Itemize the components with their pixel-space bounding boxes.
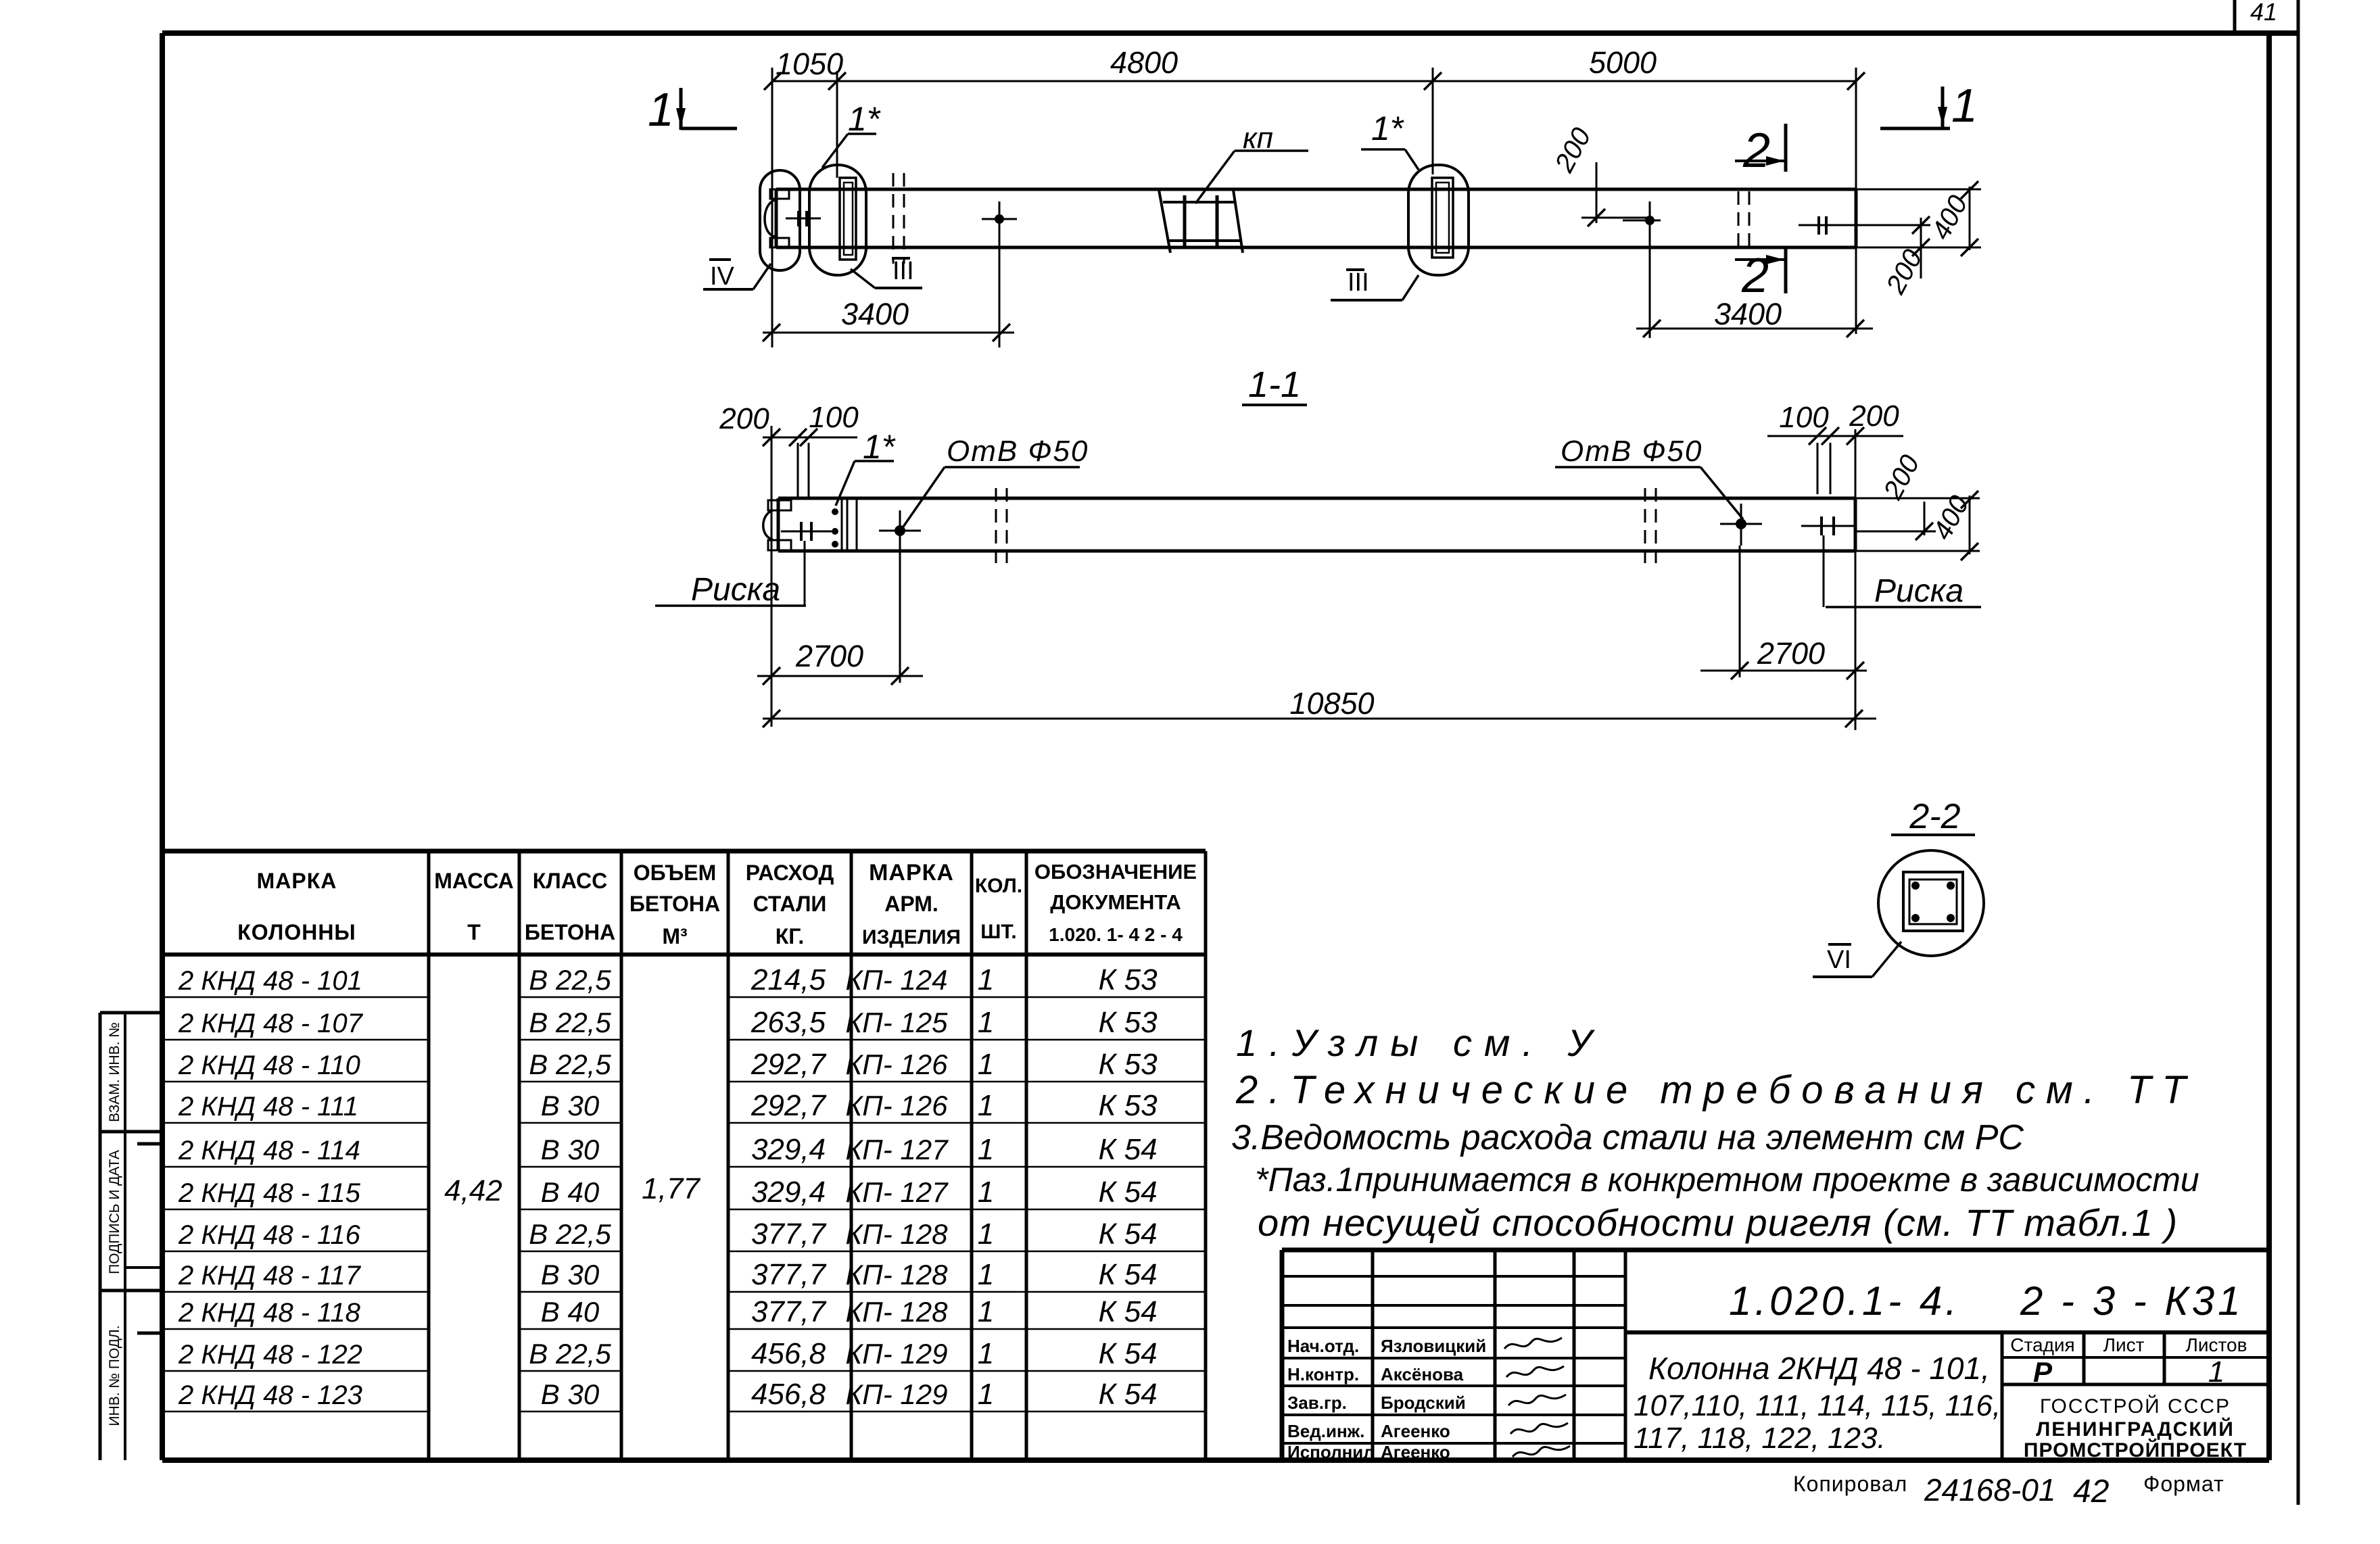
svg-text:КОЛОННЫ: КОЛОННЫ: [237, 920, 356, 944]
label III left: [851, 257, 922, 288]
svg-text:Риска: Риска: [691, 572, 780, 608]
svg-text:ДОКУМЕНТА: ДОКУМЕНТА: [1050, 890, 1181, 914]
doc number: [1729, 1278, 2243, 1324]
label 1* left: [822, 100, 881, 168]
title block names: [1287, 1336, 1486, 1462]
svg-text:1*: 1*: [1371, 110, 1404, 147]
svg-text:2 - 3 - К31: 2 - 3 - К31: [2020, 1278, 2243, 1324]
svg-text:1: 1: [978, 1378, 994, 1411]
label IV: [703, 260, 771, 291]
column body section 1-1: [778, 498, 1980, 551]
reinforcement cage square: [1909, 879, 1957, 924]
note line 3: [1231, 1118, 2024, 1157]
label Otv50 left: [903, 435, 1089, 527]
svg-text:В 30: В 30: [541, 1378, 600, 1410]
svg-text:2.Технические требования см.: 2.Технические требования см. ТТ: [1235, 1068, 2197, 1112]
svg-text:от несущей способности ригел: от несущей способности ригеля (см. ТТ та…: [1258, 1201, 2178, 1244]
svg-text:Лист: Лист: [2103, 1334, 2145, 1355]
svg-text:Исполнил: Исполнил: [1287, 1442, 1375, 1462]
svg-text:ПОДПИСЬ И ДАТА: ПОДПИСЬ И ДАТА: [107, 1150, 122, 1274]
section mark 1 right: [1880, 79, 1978, 132]
dashed lines section right: [1645, 488, 1656, 563]
svg-text:ШТ.: ШТ.: [980, 921, 1016, 943]
section mark 1 left: [648, 83, 737, 136]
svg-text:2700: 2700: [795, 639, 863, 673]
left stamp strip box: [100, 1013, 165, 1460]
svg-text:1: 1: [978, 1006, 994, 1039]
svg-text:3400: 3400: [1714, 297, 1782, 331]
svg-text:КП- 125: КП- 125: [846, 1007, 949, 1038]
svg-text:1: 1: [978, 1217, 994, 1251]
svg-text:РАСХОД: РАСХОД: [746, 861, 834, 885]
slot (paz 1) left: [840, 178, 856, 260]
svg-text:107,110, 111, 114, 115, 116,: 107,110, 111, 114, 115, 116,: [1634, 1389, 2001, 1422]
svg-text:2 КНД 48 - 116: 2 КНД 48 - 116: [178, 1220, 361, 1250]
svg-text:В 30: В 30: [541, 1134, 600, 1165]
svg-text:Аксёнова: Аксёнова: [1381, 1364, 1464, 1384]
svg-text:4800: 4800: [1110, 45, 1178, 80]
svg-text:42: 42: [2073, 1474, 2109, 1510]
dim 3400 left: [763, 297, 1014, 341]
svg-text:377,7: 377,7: [751, 1258, 827, 1291]
svg-text:Бродский: Бродский: [1381, 1393, 1466, 1413]
svg-text:Н.контр.: Н.контр.: [1287, 1364, 1359, 1384]
svg-text:2 КНД 48 - 123: 2 КНД 48 - 123: [178, 1380, 362, 1410]
svg-text:4,42: 4,42: [444, 1174, 502, 1207]
svg-text:В 22,5: В 22,5: [529, 1048, 611, 1080]
svg-text:1: 1: [978, 1133, 994, 1166]
svg-text:Листов: Листов: [2186, 1334, 2247, 1355]
left strip label ПОДПИСЬ И ДАТА: [107, 1150, 122, 1274]
svg-text:КОЛ.: КОЛ.: [975, 875, 1022, 897]
dim 200-100 section left: [719, 401, 859, 727]
column body top view: [776, 189, 1981, 247]
svg-text:ЛЕНИНГРАДСКИЙ: ЛЕНИНГРАДСКИЙ: [2036, 1418, 2235, 1441]
table header text: [237, 860, 1197, 948]
svg-text:Копировал: Копировал: [1793, 1472, 1907, 1496]
svg-text:КП- 128: КП- 128: [846, 1259, 949, 1290]
svg-text:3.Ведомость расхода стали на: 3.Ведомость расхода стали на элемент см …: [1231, 1118, 2024, 1157]
svg-text:2 КНД 48 - 118: 2 КНД 48 - 118: [178, 1298, 361, 1328]
svg-text:377,7: 377,7: [751, 1295, 827, 1328]
svg-text:214,5: 214,5: [751, 963, 826, 996]
svg-text:2 КНД 48 - 115: 2 КНД 48 - 115: [178, 1178, 361, 1208]
dim text 1050: [776, 47, 843, 81]
svg-text:МАССА: МАССА: [434, 869, 514, 893]
section title 2-2: [1891, 797, 1975, 836]
svg-text:К 54: К 54: [1098, 1337, 1157, 1370]
sheet number box: [2233, 0, 2237, 33]
svg-text:1050: 1050: [776, 47, 843, 81]
svg-text:КП- 129: КП- 129: [846, 1378, 948, 1410]
org name: [2024, 1395, 2247, 1462]
svg-text:Колонна 2КНД 48 - 101,: Колонна 2КНД 48 - 101,: [1648, 1351, 1990, 1386]
lifting point 1 top view: [982, 201, 1017, 347]
svg-text:2 КНД 48 - 111: 2 КНД 48 - 111: [178, 1092, 358, 1121]
svg-text:2 КНД 48 - 101: 2 КНД 48 - 101: [178, 966, 362, 996]
svg-text:В 30: В 30: [541, 1090, 600, 1121]
svg-text:КЛАСС: КЛАСС: [533, 869, 608, 893]
table data rows: [178, 963, 1158, 1411]
svg-text:41: 41: [2250, 0, 2277, 26]
title block grid: [1282, 1250, 2269, 1460]
svg-text:К 54: К 54: [1098, 1295, 1157, 1328]
dim 2700 left: [757, 552, 923, 685]
svg-text:IV: IV: [710, 262, 735, 291]
sheet number 41: [2250, 0, 2277, 26]
svg-text:2700: 2700: [1757, 636, 1825, 671]
svg-text:1: 1: [978, 963, 994, 996]
svg-text:1: 1: [2208, 1355, 2224, 1389]
riska label right: [1826, 551, 1981, 730]
svg-text:К 54: К 54: [1098, 1176, 1157, 1209]
svg-text:2 КНД 48 - 110: 2 КНД 48 - 110: [178, 1051, 360, 1080]
svg-text:456,8: 456,8: [751, 1378, 826, 1411]
svg-text:263,5: 263,5: [751, 1006, 826, 1039]
dim 2700 right: [1700, 546, 1867, 679]
svg-text:КП- 129: КП- 129: [846, 1338, 948, 1370]
svg-text:200: 200: [719, 402, 769, 435]
lifting loop section: [763, 500, 791, 550]
dim text 4800: [1110, 45, 1178, 80]
svg-text:КП- 126: КП- 126: [846, 1090, 949, 1121]
bolt mark section right: [1801, 516, 1854, 607]
svg-text:В 22,5: В 22,5: [529, 1218, 611, 1250]
svg-text:1: 1: [978, 1089, 994, 1122]
svg-text:К 53: К 53: [1098, 1048, 1158, 1081]
svg-text:200: 200: [1849, 400, 1899, 433]
note line 1: [1236, 1021, 1604, 1064]
svg-text:МАРКА: МАРКА: [869, 860, 954, 886]
svg-text:К 53: К 53: [1098, 1089, 1158, 1122]
table grid: [163, 851, 1206, 1460]
svg-text:М³: М³: [662, 924, 687, 948]
lifting point 2 top view: [1623, 201, 1661, 338]
svg-text:III: III: [892, 257, 914, 285]
dashed lines section left: [996, 488, 1007, 563]
svg-text:ИЗДЕЛИЯ: ИЗДЕЛИЯ: [862, 926, 961, 948]
svg-text:БЕТОНА: БЕТОНА: [629, 892, 720, 916]
lifting loop top view: [765, 189, 789, 247]
svg-text:1.020. 1- 4 2 - 4: 1.020. 1- 4 2 - 4: [1049, 924, 1183, 945]
svg-text:АРМ.: АРМ.: [884, 892, 938, 916]
kopiroval line: [1793, 1472, 2224, 1510]
dim 100-200 section right: [1767, 400, 1903, 498]
svg-text:2 КНД 48 - 122: 2 КНД 48 - 122: [178, 1340, 362, 1370]
svg-text:2-2: 2-2: [1909, 797, 1960, 836]
svg-text:КГ.: КГ.: [776, 924, 805, 948]
KP mark trapezoid: [1159, 190, 1243, 253]
svg-text:Риска: Риска: [1874, 573, 1963, 609]
svg-text:ВЗАМ. ИНВ. №: ВЗАМ. ИНВ. №: [107, 1022, 122, 1122]
svg-text:КП- 127: КП- 127: [846, 1176, 949, 1208]
svg-text:КП- 128: КП- 128: [846, 1218, 949, 1250]
svg-text:ГОССТРОЙ СССР: ГОССТРОЙ СССР: [2040, 1395, 2231, 1418]
oval node IV: [760, 170, 800, 270]
svg-text:ОБОЗНАЧЕНИЕ: ОБОЗНАЧЕНИЕ: [1034, 860, 1197, 884]
dim 400 section right: [1927, 491, 1978, 560]
svg-text:*Паз.1принимается в конкретном: *Паз.1принимается в конкретном проекте в…: [1255, 1161, 2199, 1199]
svg-text:К 53: К 53: [1098, 1006, 1158, 1039]
bolt mark right top view: [1799, 216, 1930, 235]
svg-text:1.020.1- 4.: 1.020.1- 4.: [1729, 1278, 1960, 1324]
dim 200 right end top view: [1880, 216, 1930, 299]
top dimension line 1050-4800-5000: [764, 68, 1865, 347]
svg-text:СТАЛИ: СТАЛИ: [753, 892, 827, 916]
dim 10850: [763, 686, 1876, 727]
svg-text:КП- 127: КП- 127: [846, 1134, 949, 1165]
svg-text:КП- 126: КП- 126: [846, 1048, 949, 1080]
svg-text:К 54: К 54: [1098, 1258, 1157, 1291]
bolt mark left top view: [786, 211, 821, 226]
svg-text:Язловицкий: Язловицкий: [1381, 1336, 1486, 1356]
weld dots section: [832, 508, 838, 548]
oval node III right: [1408, 165, 1469, 275]
svg-text:К 54: К 54: [1098, 1217, 1157, 1251]
label 1* right: [1361, 110, 1419, 170]
dashed lines right top view: [1738, 191, 1749, 253]
svg-text:ПРОМСТРОЙПРОЕКТ: ПРОМСТРОЙПРОЕКТ: [2024, 1439, 2247, 1462]
svg-text:ОБЪЕМ: ОБЪЕМ: [634, 861, 717, 885]
section mark 2 lower: [1735, 249, 1786, 303]
svg-text:2: 2: [1741, 249, 1769, 303]
svg-text:3400: 3400: [841, 297, 909, 331]
svg-text:В 40: В 40: [541, 1176, 600, 1208]
svg-text:5000: 5000: [1589, 45, 1657, 80]
svg-text:КП- 124: КП- 124: [846, 964, 948, 996]
stadia values: [2033, 1355, 2224, 1389]
svg-text:ИНВ. № ПОДЛ.: ИНВ. № ПОДЛ.: [107, 1325, 122, 1426]
svg-text:Зав.гр.: Зав.гр.: [1287, 1393, 1347, 1413]
svg-text:Р: Р: [2033, 1356, 2053, 1388]
svg-text:В 22,5: В 22,5: [529, 964, 611, 996]
object name: [1634, 1351, 2001, 1455]
dashed lines left top view: [893, 173, 904, 264]
bolt mark section left: [781, 522, 832, 606]
svg-text:1: 1: [648, 83, 674, 136]
svg-text:117, 118, 122, 123.: 117, 118, 122, 123.: [1634, 1422, 1886, 1455]
note line 4: [1255, 1161, 2199, 1199]
svg-text:1-1: 1-1: [1248, 364, 1301, 405]
svg-text:Стадия: Стадия: [2010, 1334, 2074, 1355]
svg-text:МАРКА: МАРКА: [257, 869, 337, 893]
fold mark upper: [137, 1142, 164, 1146]
svg-text:329,4: 329,4: [751, 1176, 826, 1209]
svg-text:2 КНД 48 - 114: 2 КНД 48 - 114: [178, 1136, 360, 1165]
detail circle 2-2: [1878, 850, 1984, 956]
dim 3400 right: [1636, 297, 1873, 337]
svg-text:2 КНД 48 - 107: 2 КНД 48 - 107: [178, 1009, 364, 1038]
svg-text:1: 1: [978, 1048, 994, 1081]
hole Otv50 left: [879, 510, 921, 552]
hole Otv50 right: [1720, 504, 1762, 546]
svg-text:Нач.отд.: Нач.отд.: [1287, 1336, 1359, 1356]
table value massa: [444, 1174, 502, 1207]
svg-text:1: 1: [978, 1337, 994, 1370]
svg-text:БЕТОНА: БЕТОНА: [525, 920, 615, 944]
dim 200 at lifting point 2: [1549, 123, 1650, 226]
section mark 2 upper: [1735, 124, 1786, 178]
note line 5: [1258, 1201, 2178, 1244]
table value volume: [642, 1172, 700, 1205]
dim text 5000: [1589, 45, 1657, 80]
svg-text:В 30: В 30: [541, 1259, 600, 1290]
svg-text:10850: 10850: [1289, 686, 1374, 721]
svg-text:329,4: 329,4: [751, 1133, 826, 1166]
svg-text:VI: VI: [1827, 946, 1851, 974]
section title 1-1: [1242, 364, 1307, 405]
column cross-section square: [1903, 872, 1963, 931]
dim 200 section right: [1854, 450, 1936, 540]
svg-text:292,7: 292,7: [751, 1089, 827, 1122]
svg-text:ОтВ Ф50: ОтВ Ф50: [947, 435, 1089, 468]
svg-text:К 53: К 53: [1098, 963, 1158, 996]
svg-text:100: 100: [809, 401, 859, 434]
svg-text:1: 1: [1951, 79, 1978, 132]
svg-text:100: 100: [1779, 401, 1829, 434]
svg-text:КП- 128: КП- 128: [846, 1296, 949, 1328]
svg-text:Т: Т: [467, 920, 481, 944]
svg-text:Агеенко: Агеенко: [1381, 1421, 1450, 1441]
svg-text:ОтВ Ф50: ОтВ Ф50: [1561, 435, 1703, 468]
svg-text:1.Узлы см. У: 1.Узлы см. У: [1236, 1021, 1604, 1064]
label 1* section: [836, 428, 896, 506]
stadia header: [2010, 1334, 2247, 1355]
svg-text:1,77: 1,77: [642, 1172, 700, 1205]
svg-text:В 40: В 40: [541, 1296, 600, 1328]
page edge line right: [2297, 0, 2300, 1505]
svg-text:1*: 1*: [848, 100, 881, 138]
riska label left: [655, 572, 806, 608]
svg-text:292,7: 292,7: [751, 1048, 827, 1081]
svg-text:377,7: 377,7: [751, 1217, 827, 1251]
slot lines section left: [842, 498, 857, 551]
fold mark lower: [137, 1332, 164, 1335]
dim 400 right end top view: [1926, 181, 1978, 256]
svg-text:2: 2: [1742, 124, 1770, 178]
slot right oval: [1432, 178, 1453, 258]
oval node 1* left: [809, 165, 866, 275]
svg-text:2 КНД 48 - 117: 2 КНД 48 - 117: [178, 1261, 362, 1290]
svg-text:К 54: К 54: [1098, 1133, 1157, 1166]
label KP: [1195, 122, 1308, 203]
rebar corner dots: [1911, 882, 1955, 922]
left strip label ВЗАМ.ИНВ.№: [107, 1022, 122, 1122]
label VI: [1813, 942, 1901, 977]
svg-text:1: 1: [978, 1176, 994, 1209]
svg-text:Формат: Формат: [2143, 1472, 2224, 1496]
svg-text:К 54: К 54: [1098, 1378, 1157, 1411]
svg-text:1: 1: [978, 1258, 994, 1291]
label Otv50 right: [1555, 435, 1743, 519]
svg-text:Вед.инж.: Вед.инж.: [1287, 1421, 1364, 1441]
signatures: [1504, 1338, 1570, 1457]
svg-text:III: III: [1348, 268, 1369, 297]
label III right: [1331, 268, 1419, 300]
left strip label ИНВ.№ ПОДЛ: [107, 1325, 122, 1426]
svg-text:1: 1: [978, 1295, 994, 1328]
svg-text:Агеенко: Агеенко: [1381, 1442, 1450, 1462]
svg-text:В 22,5: В 22,5: [529, 1007, 611, 1038]
note line 2: [1235, 1068, 2197, 1112]
svg-text:456,8: 456,8: [751, 1337, 826, 1370]
svg-text:24168-01: 24168-01: [1924, 1472, 2055, 1507]
svg-text:В 22,5: В 22,5: [529, 1338, 611, 1370]
